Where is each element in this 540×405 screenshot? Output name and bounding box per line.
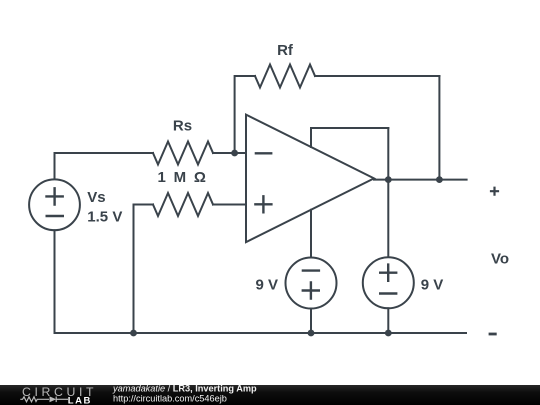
svg-text:yamadakatie / LR3, Inverting A: yamadakatie / LR3, Inverting Amp	[112, 384, 257, 394]
wire V3 bottom lead	[387, 308, 389, 333]
voltage source V3 (right 9V) circle	[363, 257, 414, 308]
op-amp minus input symbol	[256, 152, 271, 154]
wire bottom rail	[55, 332, 467, 334]
V3 minus symbol (bottom)	[380, 292, 396, 294]
svg-text:LAB: LAB	[68, 396, 92, 405]
svg-text:Vo: Vo	[491, 251, 509, 268]
resistor Rf	[255, 65, 315, 88]
wire Rf right lead	[315, 75, 439, 77]
node plus-lead to bottom rail	[130, 330, 137, 337]
svg-text:1.5 V: 1.5 V	[87, 209, 122, 226]
wire feedback right vertical	[438, 76, 440, 180]
svg-text:Rs: Rs	[173, 118, 192, 135]
svg-text:9 V: 9 V	[421, 277, 444, 294]
V3 plus symbol (top)	[380, 265, 396, 281]
wire Rs to op-amp minus input	[213, 152, 246, 154]
wire feedback left vertical	[235, 76, 255, 153]
Vs plus symbol	[47, 188, 63, 204]
V2 minus symbol (top)	[303, 269, 319, 271]
voltage source V2 (left 9V) circle	[286, 258, 337, 309]
op-amp V- pin down	[310, 210, 312, 258]
svg-text:9 V: 9 V	[255, 277, 278, 294]
wire right supply vertical	[387, 128, 389, 257]
logo diode triangle	[50, 396, 57, 402]
output minus terminal mark	[490, 333, 495, 336]
resistor Rs	[153, 142, 213, 165]
voltage source Vs circle	[29, 179, 80, 230]
node feedback-output junction	[436, 176, 443, 183]
node V2 to rail	[308, 330, 315, 337]
wire V2 bottom lead	[310, 309, 312, 334]
node V3 to rail	[385, 330, 392, 337]
svg-text:1 M Ω: 1 M Ω	[157, 169, 207, 186]
output plus terminal mark	[491, 188, 498, 195]
svg-text:http://circuitlab.com/c546ejb: http://circuitlab.com/c546ejb	[113, 393, 227, 403]
V2 plus symbol (bottom)	[303, 282, 319, 298]
Vs minus symbol	[47, 215, 63, 217]
wire Vs top lead to Rs	[55, 153, 154, 180]
wire output	[374, 179, 467, 181]
node output junction	[385, 176, 392, 183]
op-amp U1 triangle	[246, 115, 374, 243]
wire Vs bottom lead	[54, 230, 56, 333]
resistor R2 (non-inverting input)	[153, 193, 213, 216]
wire plus-input resistor to op-amp	[213, 204, 246, 206]
wire plus-input left lead down to rail	[134, 205, 154, 334]
svg-text:Vs: Vs	[87, 189, 105, 206]
logo resistor squiggle and diode	[20, 397, 68, 403]
node minus-input junction	[231, 150, 238, 157]
op-amp plus input symbol	[255, 196, 271, 212]
op-amp V+ pin to top horizontal	[311, 128, 388, 147]
svg-text:Rf: Rf	[277, 42, 294, 59]
